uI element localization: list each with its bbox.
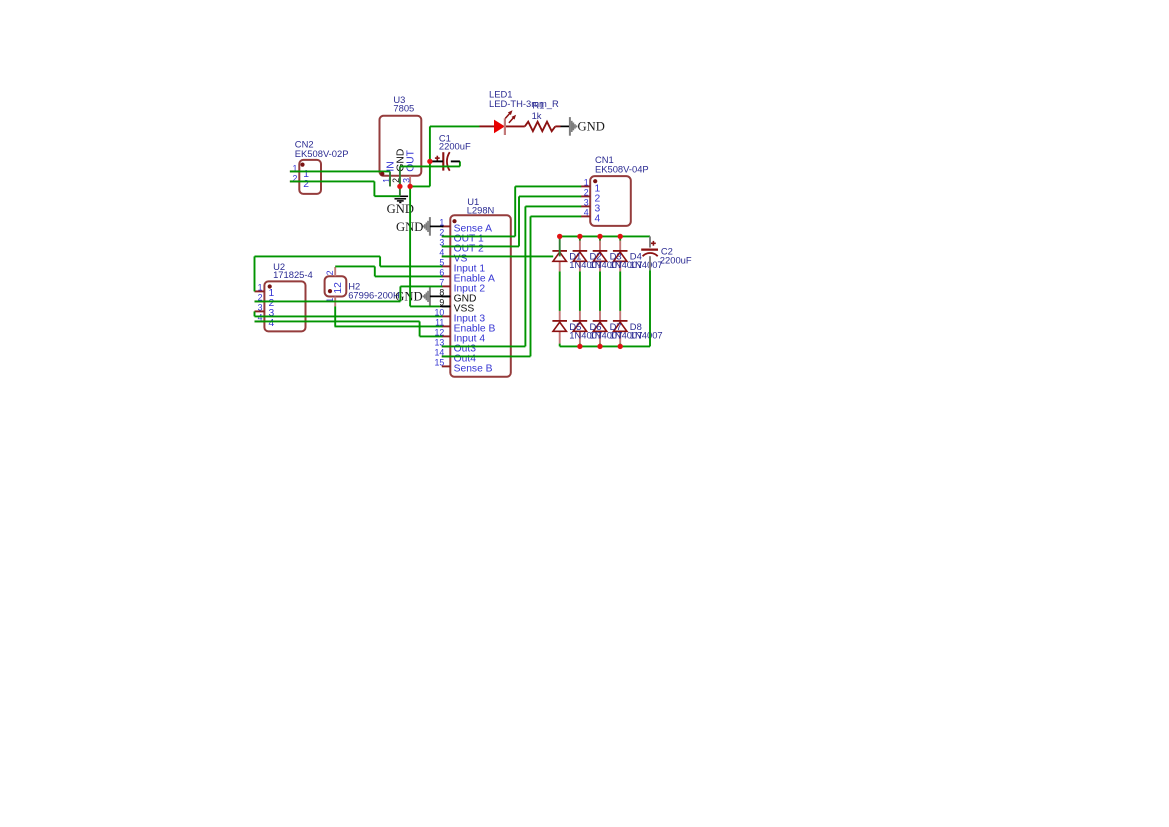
svg-text:1: 1 (258, 282, 263, 292)
svg-text:1N4007: 1N4007 (630, 259, 663, 270)
svg-text:1k: 1k (532, 110, 542, 121)
svg-text:Sense B: Sense B (454, 363, 493, 374)
svg-text:67996-200H: 67996-200H (348, 289, 400, 300)
svg-text:1: 1 (584, 178, 589, 188)
svg-text:4: 4 (269, 318, 275, 329)
svg-text:EK508V-04P: EK508V-04P (595, 164, 649, 175)
svg-text:2200uF: 2200uF (660, 254, 692, 265)
svg-text:7805: 7805 (393, 103, 414, 114)
svg-text:171825-4: 171825-4 (273, 269, 313, 280)
svg-text:2200uF: 2200uF (439, 141, 471, 152)
svg-text:L298N: L298N (467, 205, 495, 216)
svg-text:EK508V-02P: EK508V-02P (295, 148, 349, 159)
svg-text:2: 2 (584, 188, 589, 198)
svg-text:4: 4 (595, 214, 601, 225)
svg-text:12: 12 (333, 282, 344, 294)
svg-text:15: 15 (435, 358, 445, 368)
svg-text:3: 3 (584, 198, 589, 208)
svg-text:OUT: OUT (406, 149, 417, 171)
svg-text:2: 2 (325, 270, 335, 275)
svg-text:1N4007: 1N4007 (630, 329, 663, 340)
svg-text:3: 3 (401, 178, 411, 183)
svg-text:4: 4 (584, 208, 589, 218)
svg-text:3: 3 (258, 302, 263, 312)
svg-text:LED-TH-3mm_R: LED-TH-3mm_R (489, 98, 559, 109)
svg-text:GND: GND (578, 120, 605, 134)
svg-text:R1: R1 (532, 100, 544, 111)
